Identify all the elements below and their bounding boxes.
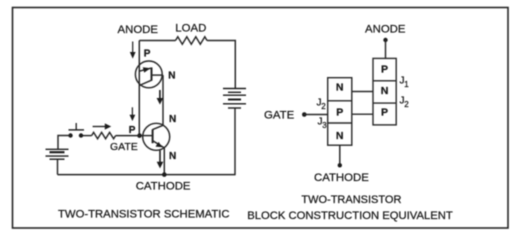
Q1 emitter arrowhead <box>143 67 151 72</box>
node cathode junction <box>162 172 167 177</box>
svg-text:P: P <box>381 63 388 75</box>
junction label J1 <box>400 76 410 90</box>
wire switch to resistor <box>81 135 92 137</box>
transistor Q1 (PNP) <box>135 61 163 88</box>
svg-text:P: P <box>129 125 136 136</box>
wire battery B2 to bottom line <box>57 159 59 174</box>
node cathode terminal <box>338 163 342 167</box>
current arrow A2 (internal N wire) <box>157 90 164 105</box>
wire block to cathode terminal <box>339 145 341 165</box>
svg-text:N: N <box>168 71 175 82</box>
wire gate terminal to block <box>304 114 327 116</box>
junction label J2 (left) <box>317 98 327 112</box>
resistor LOAD <box>176 37 208 44</box>
wire Q1 base down to Q2 collector <box>162 75 164 125</box>
svg-text:2: 2 <box>321 102 326 111</box>
svg-text:LOAD: LOAD <box>175 22 206 34</box>
battery B2 (gate supply) <box>46 149 69 159</box>
svg-text:TWO-TRANSISTOR: TWO-TRANSISTOR <box>301 194 401 206</box>
svg-text:3: 3 <box>322 121 327 130</box>
wire gate node to resistor <box>116 135 140 137</box>
bridge between columns <box>352 92 373 115</box>
wire top horizontal to load <box>139 40 175 42</box>
wire anode vertical <box>138 41 140 136</box>
Q2 emitter arrowhead <box>156 142 163 147</box>
wire switch to battery B2 <box>58 136 71 150</box>
wire battery to bottom line <box>234 108 236 175</box>
svg-text:CATHODE: CATHODE <box>314 172 369 184</box>
svg-text:1: 1 <box>404 80 409 89</box>
svg-text:GATE: GATE <box>264 109 295 121</box>
svg-text:N: N <box>336 130 344 142</box>
svg-text:N: N <box>169 114 176 125</box>
junction label J2 (right) <box>400 96 410 110</box>
svg-text:BLOCK CONSTRUCTION EQUIVALENT: BLOCK CONSTRUCTION EQUIVALENT <box>247 210 453 222</box>
svg-text:P: P <box>144 49 151 60</box>
node anode terminal <box>383 38 387 42</box>
svg-text:N: N <box>336 82 344 94</box>
svg-text:N: N <box>169 151 176 162</box>
switch S1 (push button) <box>68 123 84 138</box>
junction label J3 (left) <box>318 117 328 131</box>
svg-text:2: 2 <box>404 100 409 109</box>
current arrow A5 (gate current) <box>93 123 112 129</box>
svg-text:P: P <box>381 107 388 119</box>
svg-text:P: P <box>336 106 343 118</box>
battery B1 (load branch) <box>223 89 246 109</box>
block column right (P-N-P) <box>373 58 396 125</box>
block column left (N-P-N) <box>328 78 352 146</box>
wire bottom (cathode) line <box>58 174 236 176</box>
svg-text:N: N <box>381 85 389 97</box>
resistor R1 (gate) <box>92 132 116 138</box>
svg-text:GATE: GATE <box>110 141 138 153</box>
wire Q2 emitter to cathode line <box>163 148 165 175</box>
current arrow A3 (gate lead down) <box>130 107 136 121</box>
current arrow A1 (anode lead) <box>130 42 136 59</box>
svg-text:CATHODE: CATHODE <box>136 180 191 192</box>
node gate terminal <box>302 112 307 117</box>
svg-text:ANODE: ANODE <box>118 24 159 36</box>
current arrow A4 (cathode lead) <box>157 151 164 169</box>
node gate junction <box>137 133 142 138</box>
transistor Q2 (NPN) <box>140 123 170 150</box>
wire anode terminal to block <box>385 40 387 58</box>
wire load to battery <box>207 41 235 89</box>
svg-text:ANODE: ANODE <box>365 23 406 35</box>
svg-text:TWO-TRANSISTOR SCHEMATIC: TWO-TRANSISTOR SCHEMATIC <box>58 209 230 221</box>
